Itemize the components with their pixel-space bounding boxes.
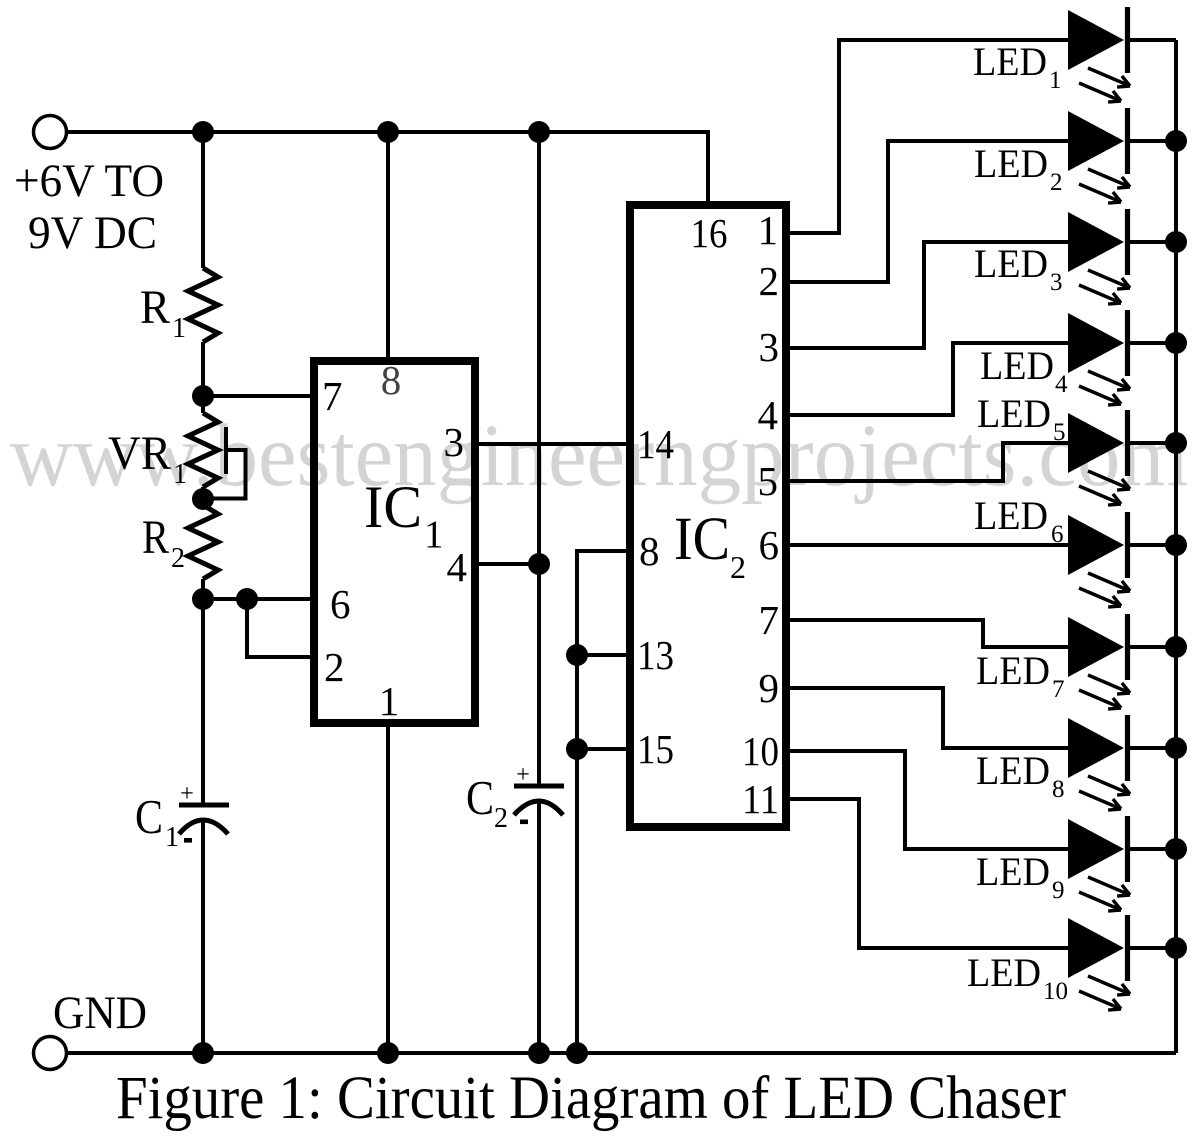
svg-text:LED: LED xyxy=(967,950,1041,995)
svg-text:1: 1 xyxy=(424,513,444,556)
svg-text:2: 2 xyxy=(494,803,508,834)
wire pin4 xyxy=(479,562,539,566)
wire pin6 xyxy=(203,597,310,601)
wire top rail xyxy=(67,132,708,201)
svg-text:8: 8 xyxy=(639,528,660,574)
node junction VR1/R2 xyxy=(192,488,214,510)
svg-text:LED: LED xyxy=(980,343,1054,388)
junction LED4 cathode xyxy=(1165,332,1187,354)
svg-text:1: 1 xyxy=(379,678,400,724)
svg-text:3: 3 xyxy=(1050,269,1063,296)
LED4 xyxy=(1068,310,1176,405)
svg-text:9: 9 xyxy=(1052,877,1065,904)
junction LED2 cathode xyxy=(1165,130,1187,152)
junction IC1 pin1/ground xyxy=(377,1042,399,1064)
svg-text:R: R xyxy=(142,511,169,564)
resistor R1 xyxy=(188,268,218,342)
svg-text:8: 8 xyxy=(1052,776,1065,803)
wire R2 bottom xyxy=(201,579,205,599)
svg-text:LED: LED xyxy=(974,493,1048,538)
svg-text:6: 6 xyxy=(759,522,780,568)
node junction pin15 xyxy=(566,738,588,760)
wire pin9 to LED8 xyxy=(790,688,1068,748)
svg-text:16: 16 xyxy=(691,210,728,256)
svg-text:2: 2 xyxy=(1050,169,1063,196)
svg-text:IC: IC xyxy=(364,474,422,540)
svg-text:5: 5 xyxy=(758,458,779,504)
svg-text:IC: IC xyxy=(674,506,730,573)
wire pin5 to LED5 xyxy=(790,443,1068,481)
node junction Vcc rail xyxy=(528,121,550,143)
potentiometer VR1 xyxy=(188,413,218,487)
junction LED9 cathode xyxy=(1165,838,1187,860)
LED1 xyxy=(1068,7,1176,102)
wire C1 bottom xyxy=(201,820,205,1053)
svg-text:4: 4 xyxy=(447,544,468,590)
svg-text:8: 8 xyxy=(381,357,402,403)
svg-text:2: 2 xyxy=(324,644,345,690)
node junction pin8 xyxy=(377,121,399,143)
junction IC2 pin8/ground xyxy=(566,1042,588,1064)
svg-text:2: 2 xyxy=(730,549,746,585)
pin labels IC1 xyxy=(322,357,467,724)
wire pin2 to LED2 xyxy=(790,141,1068,282)
wire pin3 to LED3 xyxy=(790,242,1068,348)
wire C1 top xyxy=(201,599,205,803)
junction LED7 cathode xyxy=(1165,636,1187,658)
node GND terminal xyxy=(34,1037,67,1070)
wire C2 bottom xyxy=(537,801,541,1053)
svg-text:LED: LED xyxy=(976,748,1050,793)
wire pin11 to LED10 xyxy=(790,799,1068,948)
svg-text:+: + xyxy=(516,762,530,788)
svg-text:2: 2 xyxy=(171,543,185,574)
svg-text:C: C xyxy=(466,770,494,825)
svg-text:7: 7 xyxy=(1052,676,1065,703)
svg-text:VR: VR xyxy=(108,427,171,480)
svg-text:4: 4 xyxy=(1055,371,1068,398)
node junction R1/VR1/pin7 xyxy=(192,385,214,407)
svg-text:LED: LED xyxy=(977,391,1051,436)
wire pin8 IC2 ground column xyxy=(577,551,626,1053)
LED8 xyxy=(1068,715,1176,810)
svg-text:LED: LED xyxy=(974,241,1048,286)
svg-text:14: 14 xyxy=(637,421,674,467)
svg-text:LED: LED xyxy=(973,39,1047,84)
wire VR1 wiper xyxy=(224,427,228,474)
wire VR1-R2 xyxy=(201,487,205,505)
wire pin8 xyxy=(386,132,390,357)
svg-text:4: 4 xyxy=(758,392,779,438)
svg-text:13: 13 xyxy=(637,632,674,678)
node junction pin4/C2 xyxy=(528,553,550,575)
wire pin2 xyxy=(247,599,310,657)
LED10 xyxy=(1068,915,1176,1010)
wire pin6 to LED6 xyxy=(790,543,1068,547)
counter IC2 box xyxy=(630,205,786,827)
svg-text:LED: LED xyxy=(974,141,1048,186)
wire Vcc column xyxy=(537,132,541,786)
node junction R2/pin6 xyxy=(192,588,214,610)
junction C2/ground xyxy=(528,1042,550,1064)
svg-text:Figure 1: Circuit Diagram of L: Figure 1: Circuit Diagram of LED Chaser xyxy=(116,1065,1066,1132)
svg-text:LED: LED xyxy=(976,849,1050,894)
wire pin7 to LED7 xyxy=(790,620,1068,647)
svg-text:10: 10 xyxy=(1043,978,1068,1005)
C1 positive plate xyxy=(179,803,229,808)
capacitor C1 xyxy=(135,781,229,853)
svg-text:1: 1 xyxy=(165,822,179,853)
svg-text:R: R xyxy=(140,281,170,334)
LED7 xyxy=(1068,614,1176,709)
wire pin1 to LED1 xyxy=(790,40,1068,233)
node +V terminal xyxy=(34,116,67,149)
svg-text:3: 3 xyxy=(444,419,465,465)
svg-text:6: 6 xyxy=(1051,521,1064,548)
svg-text:1: 1 xyxy=(172,313,186,344)
svg-text:9V DC: 9V DC xyxy=(28,207,157,259)
svg-text:7: 7 xyxy=(759,597,780,643)
junction LED5 cathode xyxy=(1165,432,1187,454)
wire ground rail xyxy=(67,1051,1176,1055)
wire cathode rail xyxy=(1174,40,1178,1053)
svg-text:3: 3 xyxy=(759,324,780,370)
LED3 xyxy=(1068,209,1176,304)
C2 negative curved plate xyxy=(514,801,563,815)
pin labels IC2 xyxy=(637,207,779,822)
svg-text:+6V TO: +6V TO xyxy=(14,155,164,207)
wire pin4 to LED4 xyxy=(790,343,1068,415)
svg-text:C: C xyxy=(135,789,163,844)
node junction R1 rail xyxy=(192,121,214,143)
svg-text:1: 1 xyxy=(758,207,779,253)
junction LED10 cathode xyxy=(1165,937,1187,959)
LED9 xyxy=(1068,816,1176,911)
svg-text:11: 11 xyxy=(742,776,779,822)
resistor R2 xyxy=(188,505,218,579)
node junctions cathode rail xyxy=(1165,130,1187,959)
svg-text:+: + xyxy=(180,781,194,807)
wire pin3-pin14 xyxy=(479,442,626,446)
junction C1/ground xyxy=(192,1042,214,1064)
wire pin15 xyxy=(577,747,626,751)
svg-text:15: 15 xyxy=(637,726,674,772)
wire R1 bottom xyxy=(201,342,205,413)
svg-text:1: 1 xyxy=(1049,67,1062,94)
svg-text:7: 7 xyxy=(322,373,343,419)
C1 negative curved plate xyxy=(179,820,228,834)
svg-text:GND: GND xyxy=(53,987,147,1039)
svg-text:2: 2 xyxy=(759,258,780,304)
wire pin7 xyxy=(203,394,310,398)
LED6 xyxy=(1068,512,1176,607)
svg-text:5: 5 xyxy=(1053,419,1066,446)
wire pin10 to LED9 xyxy=(790,751,1068,849)
junction LED6 cathode xyxy=(1165,534,1187,556)
LED5 xyxy=(1068,410,1176,505)
node junction pin2 tap xyxy=(236,588,258,610)
node junctions ground rail xyxy=(192,1042,588,1064)
LED2 xyxy=(1068,108,1176,203)
svg-text:1: 1 xyxy=(173,459,187,490)
svg-text:LED: LED xyxy=(976,648,1050,693)
svg-text:10: 10 xyxy=(742,728,779,774)
C2 positive plate xyxy=(514,784,564,789)
wire pin13 xyxy=(577,653,626,657)
capacitor C2 xyxy=(466,762,564,834)
svg-text:6: 6 xyxy=(330,581,351,627)
svg-text:9: 9 xyxy=(759,665,780,711)
C2 minus mark xyxy=(520,820,528,825)
C1 minus mark xyxy=(184,838,192,843)
wire pin1 xyxy=(386,727,390,1053)
op IC1 box xyxy=(314,361,475,723)
wire R1 top xyxy=(201,132,205,268)
node junction pin13 xyxy=(566,644,588,666)
junction LED8 cathode xyxy=(1165,737,1187,759)
junction LED3 cathode xyxy=(1165,231,1187,253)
